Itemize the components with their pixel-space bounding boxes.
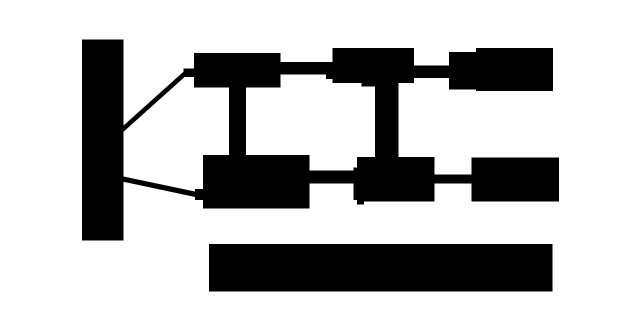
- block B1: top-left box: [194, 53, 281, 87]
- wire: diagonal from input bar up to block B1: [122, 74, 185, 131]
- wire: B5 to B6 horizontal connector: [434, 174, 472, 183]
- node: step at left of block B5: [354, 168, 358, 201]
- wire: vertical connector B2 down to B5: [375, 83, 399, 162]
- block B5: bottom-middle box: [357, 157, 435, 202]
- wire: B2 to B3 horizontal connector: [414, 66, 449, 79]
- node: junction blob at left of block B1: [184, 68, 195, 77]
- wire: B1 to B2 horizontal connector: [280, 62, 333, 75]
- wire: diagonal from input bar down to block B4: [123, 176, 199, 197]
- node: small bump under block B5: [357, 202, 364, 205]
- node: junction blob at left of block B4: [195, 189, 203, 200]
- block B6: bottom-right box: [471, 158, 559, 202]
- node: arrowhead block entering B3: [449, 52, 476, 90]
- block B2: top-middle box: [332, 48, 414, 83]
- block: bottom caption bar: [209, 244, 553, 292]
- node: small bump under block B2: [362, 83, 376, 86]
- wire: B4 to B5 horizontal connector: [309, 171, 354, 184]
- node: step at end of B1-B2 wire: [326, 74, 333, 79]
- block B3: top-right box: [476, 48, 553, 91]
- wire: vertical connector B1 down to B4: [229, 87, 246, 156]
- block B4: bottom-left box: [203, 155, 310, 209]
- block: left input bar: [82, 40, 124, 241]
